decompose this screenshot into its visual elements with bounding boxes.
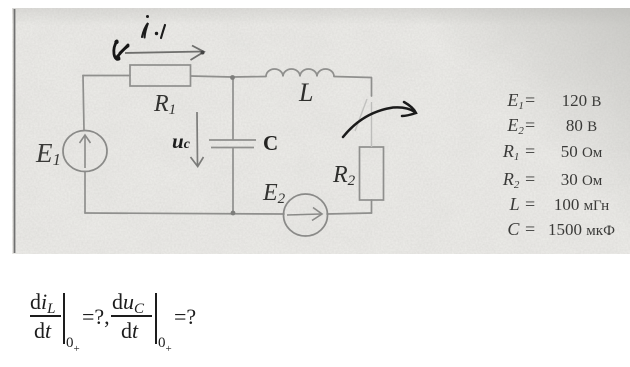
voltage arrow uc down	[191, 112, 204, 167]
voltage source E1 circle	[63, 131, 107, 172]
value E2	[488, 115, 536, 137]
switch faint blade	[355, 99, 367, 131]
resistor R2 body	[360, 147, 384, 200]
value R1	[488, 141, 536, 163]
wire inductor to top-right corner	[334, 77, 371, 78]
wire top-right corner down to switch	[371, 78, 373, 97]
wire capacitor branch lower	[232, 149, 234, 214]
wire left vertical upper	[83, 76, 84, 131]
values table	[488, 89, 628, 91]
E1 arrow up	[80, 135, 91, 168]
wire bottom right horizontal	[327, 213, 372, 214]
wire right vertical stub below R2	[371, 200, 373, 213]
switch faint wire	[371, 102, 373, 147]
value E1	[488, 90, 536, 112]
wire bottom left horizontal	[85, 213, 284, 214]
node junction top	[230, 75, 235, 80]
wire capacitor branch upper	[232, 77, 234, 140]
voltage source E2 circle	[284, 194, 328, 236]
formula diL/dt	[30, 289, 55, 318]
value L	[488, 194, 536, 215]
switch curved arrow	[343, 102, 416, 137]
wire R1 to junction	[191, 76, 233, 77]
E2 arrow right	[287, 208, 322, 221]
inductor L coils	[266, 69, 334, 76]
pen squiggle u before arrow	[114, 40, 128, 61]
current arrow iL	[125, 46, 204, 61]
label i.l handwritten	[142, 15, 165, 38]
svg-text:L: L	[298, 78, 313, 107]
value C	[488, 219, 536, 240]
formula duC/dt	[112, 289, 144, 318]
resistor R1 body	[130, 65, 191, 86]
value R2	[488, 169, 536, 191]
wire top-left horizontal	[83, 75, 130, 77]
wire left vertical lower	[84, 172, 86, 214]
node junction bottom	[231, 211, 236, 216]
svg-text:C: C	[263, 131, 278, 155]
capacitor C plates	[209, 139, 256, 141]
wire junction to inductor	[232, 76, 266, 79]
